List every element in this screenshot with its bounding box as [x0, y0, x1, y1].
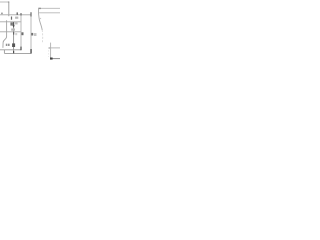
dark segment top of x=13.6 — [13, 22, 14, 26]
dark tick x=13.6 at y=51.5 — [13, 51, 14, 54]
dark nub left end y=47.9 — [49, 47, 50, 48]
arrows blob on x=13.6 at y=44 — [12, 43, 15, 47]
dark top tick of x=21 — [20, 13, 21, 15]
arrow right of x=31 at y=34 — [31, 33, 33, 36]
arrowhead down on x=13.6 — [13, 25, 15, 27]
dark tick on x=13.6 below y=31.8 — [13, 32, 14, 35]
dark bottom tip of x=31 — [30, 49, 31, 53]
tiny text x=15-18 below line — [15, 17, 18, 19]
faint text right of arrow — [34, 33, 37, 36]
dimension line y=31.8 — [0, 31, 21, 33]
second right line y=12.8 — [39, 12, 60, 14]
arrow mark x=11.5 below line — [11, 17, 12, 20]
text above y=49.8 left char1 — [6, 44, 8, 46]
text above y=49.8 left char2 — [8, 44, 10, 46]
centre dimension line x=13.6 — [13, 22, 15, 53]
extension line x=31 — [30, 12, 32, 53]
dark blob at bottom-right junction — [50, 58, 53, 60]
text left of x=13.6 top — [10, 22, 13, 25]
faint text above y=31.8 line — [11, 29, 15, 31]
arrowhead x=17 above line — [17, 12, 18, 14]
top-left outline horizontal edge — [0, 1, 9, 3]
dimension line y=14.7 — [0, 14, 31, 16]
dark top tick of x=31 — [30, 12, 31, 16]
arrow right of x=21 at y=33.5 — [22, 32, 24, 35]
faint text right of x=13.6 top — [15, 22, 18, 25]
right dimension vertical x=50.6 — [50, 43, 52, 59]
top-left outline vertical edge — [8, 2, 10, 16]
dimension line y=21.8 — [0, 21, 22, 23]
dark nub left end of y=8.3 — [38, 8, 41, 9]
extension line x=21 — [20, 13, 22, 50]
dark bottom tip of x=21 — [20, 47, 21, 51]
right profile S-curve — [38, 8, 42, 30]
bottom-right horizontal y=58.6 — [51, 58, 60, 60]
background — [0, 0, 60, 61]
left profile vertical + hook curve — [3, 20, 7, 48]
faint text right of x=13.6 at y=33 — [15, 33, 17, 35]
top-left outline corner dark — [8, 1, 9, 2]
tiny text left above line — [1, 13, 3, 15]
right outline corner — [39, 7, 60, 9]
step vertical x=4.4 — [3, 50, 5, 54]
right profile faded lower curve — [41, 30, 44, 43]
dimension line y=53.4 — [4, 52, 31, 54]
faint dashed vertical x=48.6 — [48, 50, 50, 57]
right dim horizontal y=47.9 — [49, 47, 60, 49]
tiny dot below y=12.8 — [40, 18, 41, 19]
dimension line y=49.8 — [0, 49, 21, 51]
